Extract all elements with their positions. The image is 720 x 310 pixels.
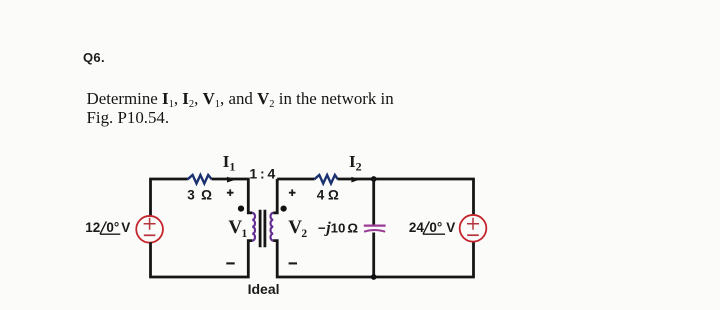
transformer core bars xyxy=(260,210,265,248)
transformer secondary coil xyxy=(271,213,274,241)
svg-text:24: 24 xyxy=(409,220,425,235)
title Q6. xyxy=(83,50,105,65)
label V1 xyxy=(228,217,247,240)
dot secondary winding xyxy=(281,206,287,212)
voltage source Vs1 12V circle xyxy=(136,216,163,243)
wire: capacitor branch lower xyxy=(372,233,375,278)
junction node bottom of capacitor branch xyxy=(371,274,377,280)
label I2 xyxy=(349,152,362,174)
label I1 xyxy=(223,152,236,174)
label Ideal xyxy=(248,281,280,297)
svg-text:0°: 0° xyxy=(106,220,119,235)
label V2 xyxy=(288,217,307,240)
wire: top from resistor to transformer primary xyxy=(212,179,253,213)
capacitor -j10 plates xyxy=(364,226,386,232)
svg-text:12: 12 xyxy=(85,220,100,235)
svg-text:1 : 4: 1 : 4 xyxy=(249,165,275,181)
wire: secondary top to 4-ohm resistor xyxy=(277,178,314,181)
wire: capacitor branch upper xyxy=(372,179,375,225)
svg-text:−j10Ω: −j10Ω xyxy=(318,219,359,236)
svg-text:3 Ω: 3 Ω xyxy=(187,187,212,202)
current arrow I2 xyxy=(351,177,359,183)
dot primary winding xyxy=(238,206,244,212)
resistor R=4ohm zigzag xyxy=(314,175,338,184)
plus sign V1 xyxy=(227,189,234,196)
svg-text:0°: 0° xyxy=(429,220,442,235)
svg-text:I2: I2 xyxy=(349,152,362,174)
label 3 ohm xyxy=(187,187,212,202)
label 12 angle 0 V xyxy=(85,220,130,235)
wire: top from 4-ohm to right edge xyxy=(338,179,474,216)
wire: left-top from source to 3-ohm resistor xyxy=(151,179,188,216)
svg-text:Ideal: Ideal xyxy=(248,281,280,297)
transformer primary coil xyxy=(252,213,255,241)
label 1:4 turns ratio xyxy=(249,165,275,181)
label -j10 ohm xyxy=(318,219,359,236)
label 24 angle 0 V xyxy=(409,220,455,235)
svg-text:V: V xyxy=(121,220,130,235)
minus sign V1 xyxy=(226,262,234,264)
current arrow I1 xyxy=(227,177,236,183)
svg-text:4 Ω: 4 Ω xyxy=(317,187,339,202)
wire: secondary top jog xyxy=(273,179,277,213)
label 4 ohm xyxy=(317,187,339,202)
svg-text:V1: V1 xyxy=(228,217,247,240)
problem statement text xyxy=(87,89,394,128)
svg-text:V2: V2 xyxy=(288,217,307,240)
wire: secondary bottom, loop bottom to right source xyxy=(273,241,473,277)
junction node top of capacitor branch xyxy=(371,176,377,182)
svg-text:I1: I1 xyxy=(223,152,236,174)
svg-text:V: V xyxy=(446,220,455,235)
minus sign V2 xyxy=(289,262,297,264)
plus sign V2 xyxy=(289,189,296,196)
voltage source Vs2 24V circle xyxy=(460,215,487,242)
wire: left loop bottom xyxy=(151,241,253,277)
resistor R=3ohm zigzag xyxy=(188,175,212,184)
